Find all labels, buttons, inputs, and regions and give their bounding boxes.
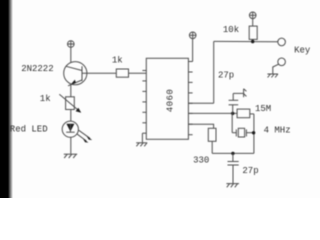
svg-text:27p: 27p [218,71,234,81]
capacitor 27p bottom [228,162,239,166]
junction dot (crystal right) [252,131,255,134]
terminal Key [278,38,286,46]
wire cap to ground [232,165,234,183]
svg-text:10k: 10k [223,25,239,35]
wire to LED [70,110,72,122]
resistor R 10k vertical [249,26,257,39]
wire key return to ground [273,64,279,73]
LED light arrows [77,130,93,142]
wire key net vertical [213,41,215,103]
junction dot (bottom cap) [231,152,234,155]
svg-text:4 MHz: 4 MHz [264,125,291,135]
svg-text:27p: 27p [242,166,258,176]
wire to IC pin [129,72,147,74]
wire 15M right [250,113,254,115]
svg-text:2N2222: 2N2222 [21,64,53,74]
IC right pins [188,62,192,135]
svg-text:1k: 1k [40,94,51,104]
trimmer capacitor 27p [229,89,247,114]
svg-text:4060: 4060 [165,89,175,113]
wire 330 to bottom net [211,141,213,153]
junction dot (key net) [251,40,254,43]
IC U1 4060 body [146,58,188,139]
wire IC osc out to 15M [188,112,237,114]
terminal Key return [278,58,286,66]
wire 10k to junction [252,39,254,41]
ground (LED) [64,154,77,158]
wire IC Vdd to power [192,39,194,62]
svg-text:330: 330 [193,156,209,166]
wire junction to cap [232,153,234,161]
ground (bottom cap) [226,184,239,188]
wire LED to ground [70,137,72,154]
resistor R 15M horizontal [237,109,250,118]
junction dot (trimmer) [231,112,234,115]
crystal X1 [232,128,254,137]
IC left pins [142,71,146,134]
power V+ symbol (10k) [249,12,256,19]
resistor R 330 vertical [208,128,216,141]
wire base lead [82,72,116,74]
power V+ symbol (transistor collector) [68,41,75,48]
wire crystal left vertical [231,113,233,132]
svg-text:1k: 1k [112,55,123,65]
wire collector lead [70,47,72,67]
svg-text:15M: 15M [255,104,271,114]
ground (IC) [136,143,147,147]
wire bottom net [212,152,254,154]
resistor R 1k horizontal [116,69,128,77]
wire IC reset pin to key net [188,102,213,104]
LED D1 red [62,121,78,137]
power V+ symbol (IC) [189,32,196,39]
wire key net horizontal [214,40,278,42]
wire IC ground pin [141,133,143,142]
wire emitter lead [70,85,72,97]
wire IC to 330 [188,124,213,128]
resistor 1k vertical (with arrow) [59,94,81,112]
left black margin bar [0,0,8,198]
svg-text:Red LED: Red LED [10,124,48,134]
ground (key) [267,74,278,78]
wire power to 10k [252,19,254,26]
transistor Q1 2N2222 [64,62,87,86]
svg-text:Key: Key [294,45,311,55]
wire right vertical (crystal right) [253,114,255,153]
